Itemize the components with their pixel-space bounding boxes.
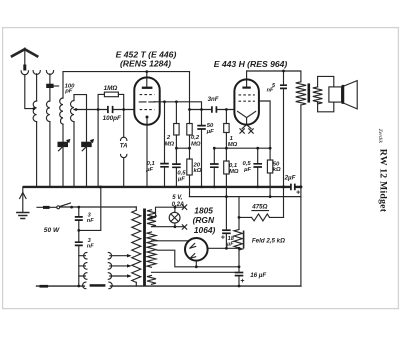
svg-text:E 443 H (RES 964): E 443 H (RES 964) bbox=[214, 59, 288, 69]
svg-text:+: + bbox=[221, 235, 225, 242]
svg-text:2: 2 bbox=[166, 135, 171, 141]
svg-text:1: 1 bbox=[230, 136, 233, 142]
svg-text:5 V,: 5 V, bbox=[172, 195, 182, 201]
svg-text:(RENS 1284): (RENS 1284) bbox=[120, 58, 171, 68]
svg-text:Feld 2,5 kΩ: Feld 2,5 kΩ bbox=[252, 237, 285, 244]
svg-text:µF: µF bbox=[226, 241, 234, 247]
svg-text:50 W: 50 W bbox=[44, 227, 60, 234]
svg-text:3nF: 3nF bbox=[208, 96, 219, 103]
svg-text:MΩ: MΩ bbox=[191, 141, 201, 147]
svg-text:µF: µF bbox=[177, 176, 185, 182]
svg-text:+: + bbox=[240, 278, 244, 285]
svg-text:µF: µF bbox=[206, 129, 214, 135]
svg-text:kΩ: kΩ bbox=[273, 167, 281, 173]
svg-text:kΩ: kΩ bbox=[194, 168, 202, 174]
svg-text:MΩ: MΩ bbox=[228, 142, 238, 148]
svg-text:1064): 1064) bbox=[194, 225, 216, 235]
svg-text:(RGN: (RGN bbox=[193, 215, 215, 225]
svg-text:0,2: 0,2 bbox=[191, 135, 200, 141]
svg-text:1MΩ: 1MΩ bbox=[104, 85, 118, 92]
svg-text:MΩ: MΩ bbox=[165, 141, 175, 147]
svg-text:0,1: 0,1 bbox=[147, 161, 155, 167]
svg-text:+: + bbox=[296, 190, 300, 197]
svg-text:nF: nF bbox=[87, 218, 94, 224]
svg-text:RW 12 Midget: RW 12 Midget bbox=[377, 149, 388, 213]
svg-text:µF: µF bbox=[243, 167, 251, 173]
svg-text:nF: nF bbox=[267, 87, 274, 93]
svg-text:Zerdik: Zerdik bbox=[377, 129, 383, 144]
svg-text:TA: TA bbox=[120, 143, 128, 150]
svg-text:MΩ: MΩ bbox=[229, 169, 239, 175]
svg-text:2µF: 2µF bbox=[284, 174, 296, 181]
svg-text:16 µF: 16 µF bbox=[250, 272, 266, 279]
svg-text:µF: µF bbox=[145, 167, 153, 173]
svg-text:pF: pF bbox=[64, 89, 73, 95]
svg-text:0,2A: 0,2A bbox=[172, 202, 185, 208]
svg-text:100pF: 100pF bbox=[103, 115, 121, 122]
svg-text:1805: 1805 bbox=[194, 206, 213, 216]
svg-text:475Ω: 475Ω bbox=[251, 204, 267, 211]
svg-text:nF: nF bbox=[87, 244, 94, 250]
